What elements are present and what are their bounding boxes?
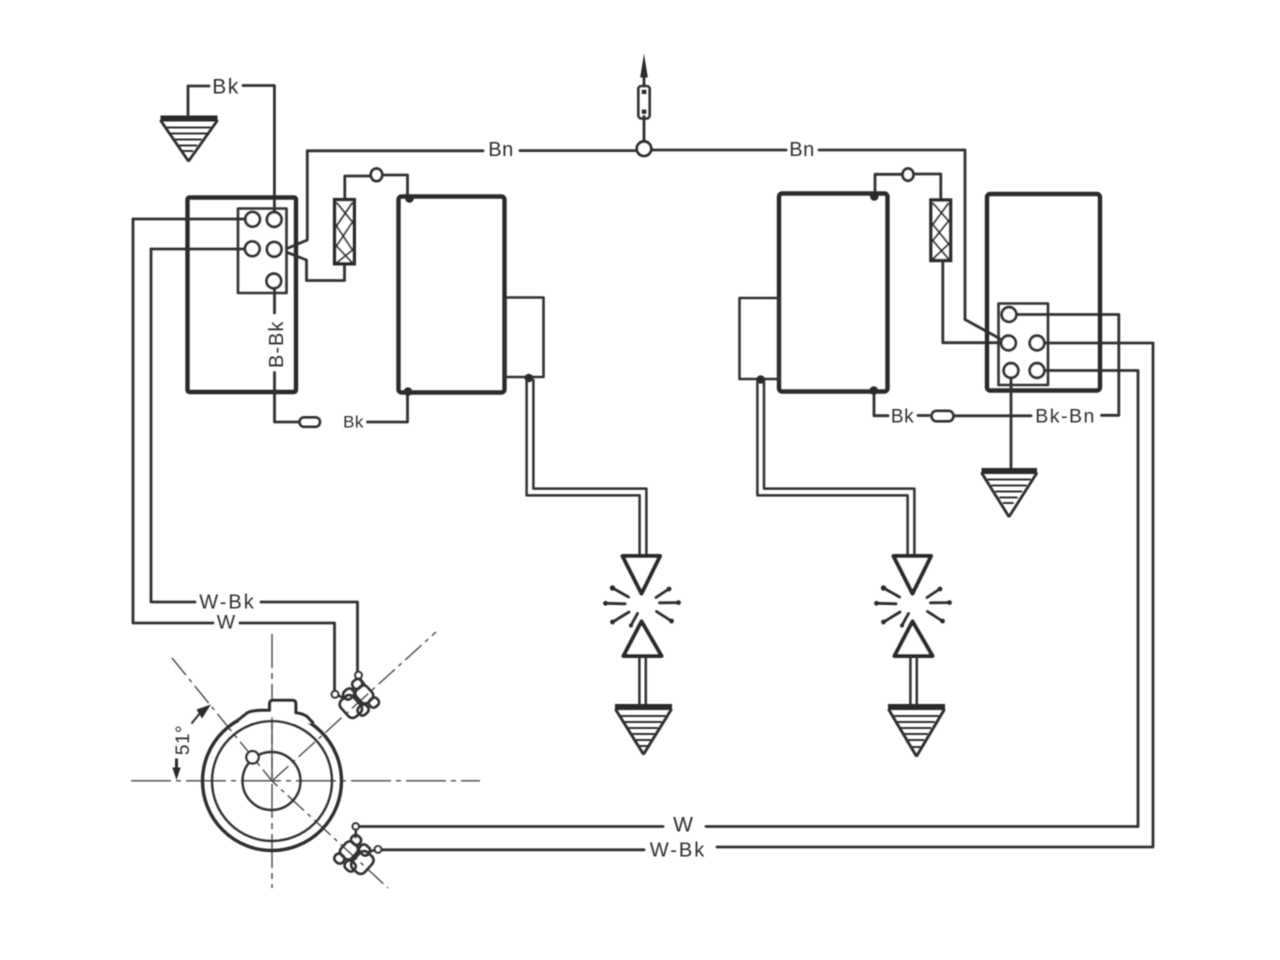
spark plug P2 gap upper electrode [894,556,932,594]
wire W label to breaker terminal [359,825,663,828]
wire Bk label to ground G1 [188,86,209,115]
ignition coil T1 body [399,197,505,393]
magneto unit box (left) [188,198,297,393]
connector J2 pin 4 [1004,363,1019,378]
resistor R1 body [335,200,355,264]
svg-text:Bn: Bn [789,139,814,161]
svg-text:Bk: Bk [891,407,914,428]
wire J2 pin4 to ground G2 [1010,378,1013,467]
fuse F1 capsule [300,417,321,427]
centerline diagonal upper-left to lower-right [172,658,388,888]
wire W label to breaker terminal [240,623,335,691]
spark plug P1 tip (hatched triangle) [615,707,672,754]
junction dot at T2 HT terminal [756,375,765,384]
connector J2 pin 3 [1030,336,1045,351]
wire Bn line (left of label Bn1) [307,149,483,152]
ignition coil T2 body [779,194,888,392]
terminal ring (W-Bk) [355,672,362,679]
wire W-Bk label to breaker terminal [382,848,644,851]
spark plug P2 spark rays [874,585,952,627]
wire O right to coil T2 top [875,174,902,195]
spark plug P1 spark rays [603,585,681,627]
51 degree dimension arrow (lower) [175,759,178,770]
flywheel outer rim [203,712,342,851]
wire O to coil T1 top [383,175,408,196]
wire Bk label to connector J1 pin [243,86,274,212]
connector J2 pin 1 [1002,307,1017,322]
svg-text:W: W [673,814,693,837]
HT lead wire (double stroke) to spark plug P1 [527,380,640,556]
wire Bn drop to J1 pin4 [288,151,307,248]
centerline segment redrawn below tab [271,717,273,779]
wire J1 pin3 to left bus [151,248,245,251]
wire S1 to Bn node [643,117,646,142]
flywheel keyway dot [246,751,258,763]
junction dot at coil T2 bottom [870,386,879,395]
resistor R2 body [931,200,951,261]
centerline vertical through flywheel [271,634,273,888]
wire J2 pin3 to right bus (W-Bk) [717,343,1153,847]
HT lead wire (double stroke) to spark plug P2 [757,381,907,556]
node on Bn line [637,142,651,156]
spark plug P2 tip (hatched triangle) [888,707,945,756]
connector J1 pin 4 [267,242,282,257]
terminal ring (W-Bk bottom) [375,846,382,853]
spark plug P1 stem (double stroke) [639,656,645,704]
svg-text:W-Bk: W-Bk [199,592,256,614]
wire left bus W-Bk (vertical + horizontal to label) [151,249,195,602]
svg-text:Bn: Bn [488,139,513,161]
svg-text:Bk: Bk [343,413,364,432]
svg-text:B-Bk: B-Bk [266,321,288,368]
wire Bk-Bn label up to connector J2 pin1 [1016,315,1119,416]
label O (right) [902,168,913,180]
kill switch S1 arrow shaft [643,73,646,86]
junction dot at HT terminal [525,374,534,383]
wire J1 pin1 to left bus [133,218,245,221]
flywheel key tab with shoulder plateau [237,700,314,723]
wire Bn label to node [520,149,637,152]
svg-text:W-Bk: W-Bk [650,840,707,862]
spark plug P1 gap lower electrode [624,622,662,657]
coil T2 HT terminal box [740,298,780,379]
ground G2 [982,471,1038,516]
junction dot at coil T1 top [405,194,414,203]
wire O to resistor R1 top [345,176,371,199]
junction dot at coil T2 top [870,192,879,201]
label O (left) [371,168,383,181]
wire Bn node to label Bn2 [652,149,787,152]
svg-text:W: W [217,612,236,634]
centerline horizontal through flywheel [131,780,480,782]
connector J1 pin 3 [245,242,260,257]
ground G1 (top left) [161,119,218,161]
breaker connector CB1 (upper, rotated) [333,677,381,725]
resistor R1 zigzag [337,203,353,264]
wire O right to resistor R2 top [914,174,941,199]
breaker connector CB2 link wires [356,830,375,853]
spark plug P1 gap upper electrode [623,556,661,594]
flywheel inner rim [212,721,332,841]
connector J2 body [999,304,1049,386]
svg-text:Bk: Bk [212,76,240,99]
wire Bn label to right drop, down to connector J2 [819,150,1000,339]
svg-text:51°: 51° [173,725,194,755]
wire J1 pin5 down (above label) [273,289,276,313]
coil T1 HT terminal box [506,298,544,378]
51 degree dimension arrow (upper) [197,705,212,719]
wire Bk label up to coil T1 bottom [368,393,408,422]
connector J1 body [238,209,287,294]
connector J1 pin 2 [267,212,282,227]
wire J1 pin4 to resistor R1 bottom [288,253,344,281]
resistor R2 zigzag [933,203,949,259]
terminal ring (W) [332,691,339,698]
wire dash between Bk and fuse F2 [918,414,929,417]
wire W-Bk label to breaker terminal [261,602,358,672]
wire J1 pin5 down (below label) to fuse [275,373,299,423]
connector J1 pin 1 [245,212,260,227]
kill switch S1 contacts [642,90,647,94]
wire resistor R2 bottom to connector J2 pin3 [943,261,1000,343]
flywheel hub [243,752,301,810]
spark plug P2 gap lower electrode [895,622,933,657]
wire fuse F2 to label Bk-Bn [954,414,1031,417]
junction dot at coil T1 bottom [404,387,413,396]
connector J2 pin 5 [1030,363,1045,378]
wire left bus W (vertical + horizontal to label) [133,219,213,623]
fuse F2 capsule [932,411,954,422]
51 degree dimension tail [192,713,200,723]
centerline diagonal center to upper-right [272,632,436,781]
wire coil T2 bottom to Bk label [874,394,888,416]
terminal ring (W bottom) [353,823,359,829]
CDI unit box (right) [987,194,1100,391]
breaker connector CB2 (lower, rotated) [332,833,380,881]
kill switch S1 arrow [640,54,648,78]
connector J2 pin 2 [1001,336,1016,351]
wire J2 pin5 to right bus (W) [706,371,1138,827]
svg-text:Bk-Bn: Bk-Bn [1035,406,1096,428]
spark plug P2 stem (double stroke) [910,656,916,704]
kill switch S1 body [638,86,649,119]
connector J1 pin 5 [267,274,282,289]
breaker connector CB1 link wires [338,679,364,699]
